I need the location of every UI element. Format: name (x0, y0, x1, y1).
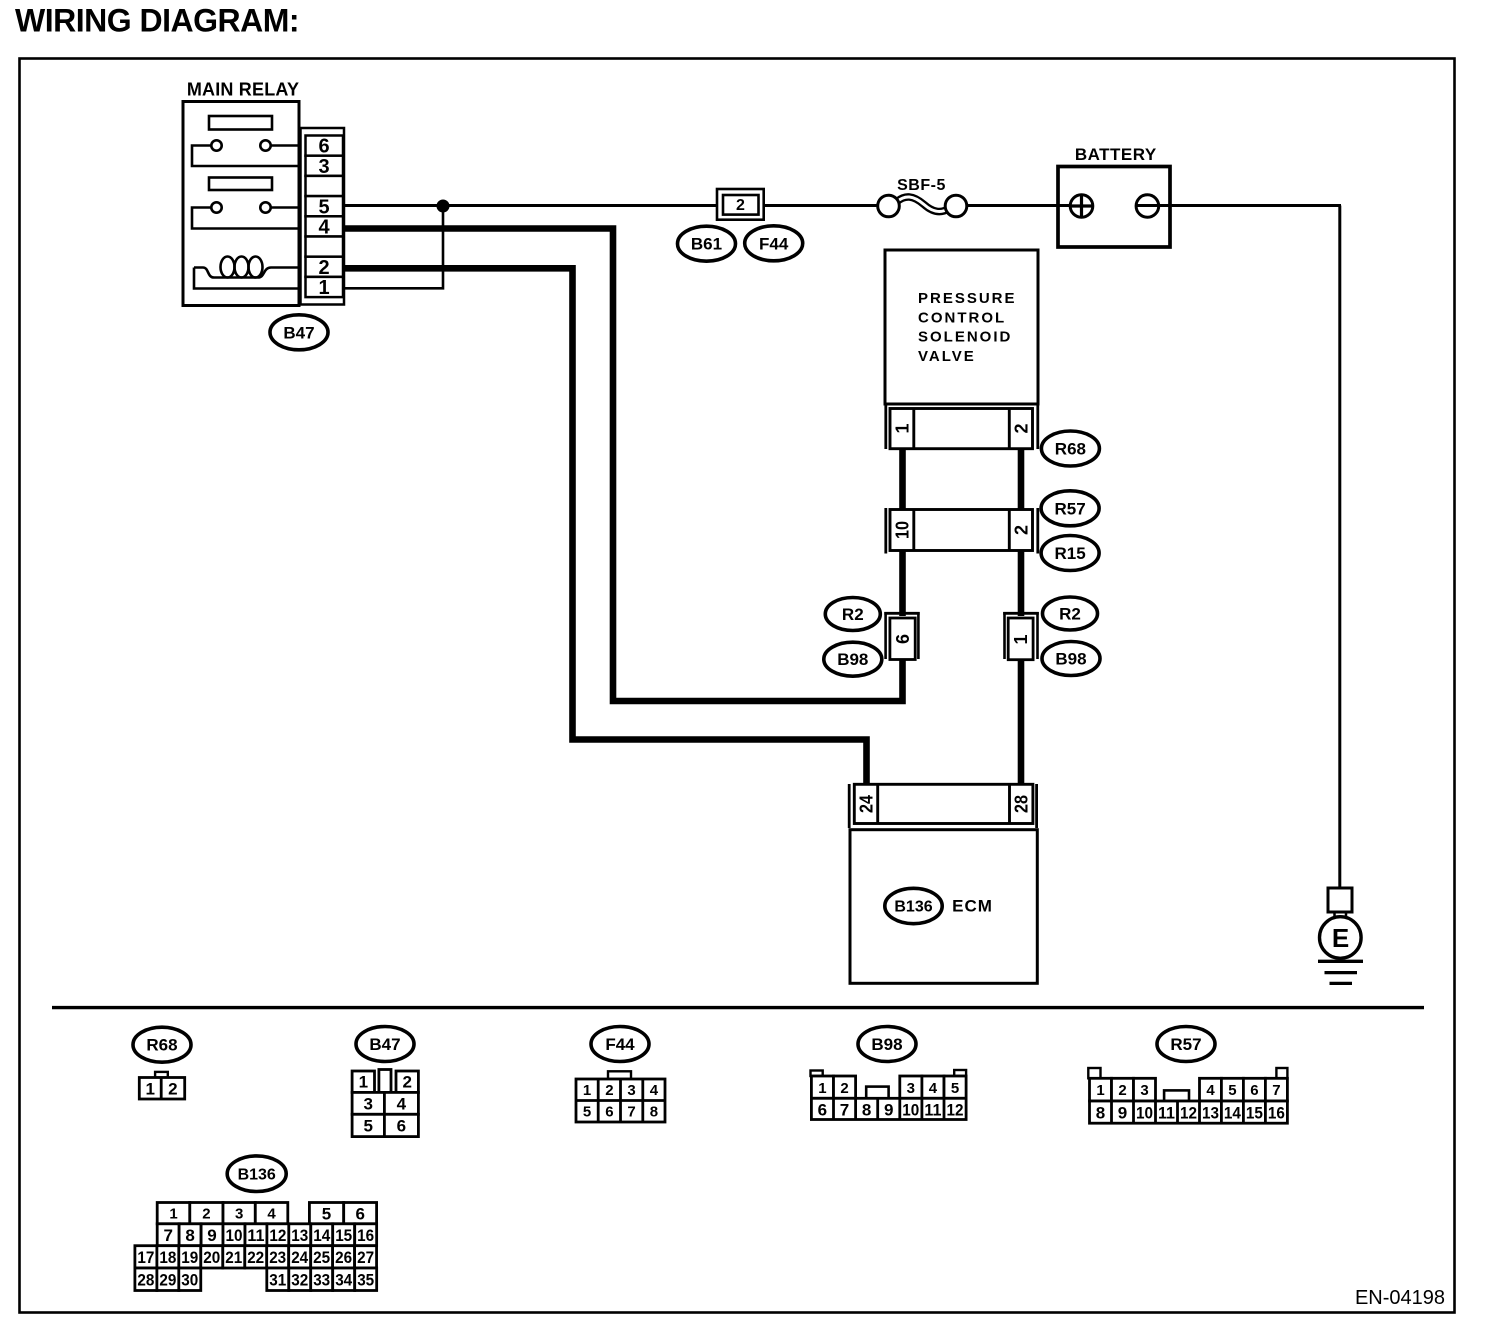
B136 pin 22 cell (245, 1246, 267, 1268)
B136 pin 21 cell (223, 1246, 245, 1268)
svg-text:5: 5 (363, 1117, 372, 1136)
B136 pin 14 cell (311, 1224, 333, 1246)
thick wire R57 conn to R2/B98 conns (899, 549, 906, 616)
svg-text:4: 4 (650, 1082, 659, 1099)
svg-text:2: 2 (1012, 423, 1032, 433)
svg-text:5: 5 (1228, 1082, 1236, 1099)
bottom connector tag F44 (591, 1027, 649, 1062)
svg-text:R68: R68 (1055, 440, 1086, 459)
svg-text:4: 4 (267, 1206, 276, 1223)
svg-text:6: 6 (355, 1204, 364, 1223)
svg-text:VALVE: VALVE (918, 348, 976, 365)
bottom connector tag R68 (133, 1027, 191, 1062)
svg-text:2: 2 (1012, 525, 1032, 535)
svg-text:23: 23 (269, 1248, 286, 1267)
svg-text:26: 26 (335, 1248, 352, 1267)
thick wire conn1 down to ECM pin28 (1018, 657, 1025, 786)
connector tag B98 right (1042, 642, 1100, 676)
connector R68 under valve : side arms (884, 404, 887, 449)
connector tag B136 inside ECM (885, 888, 942, 923)
svg-text:30: 30 (181, 1270, 198, 1289)
bottom connector B98 tabs (811, 1071, 823, 1077)
connector B47 strip outer (301, 128, 345, 305)
connector tag R2 right (1043, 597, 1098, 630)
B136 pin 30 cell (179, 1268, 201, 1291)
svg-text:3: 3 (1140, 1082, 1148, 1099)
svg-text:F44: F44 (605, 1035, 635, 1054)
bottom connector R68 body (139, 1078, 184, 1100)
bottom connector B47 row2 (352, 1092, 418, 1114)
ground bars (1318, 960, 1363, 963)
svg-text:3: 3 (363, 1094, 372, 1113)
svg-text:4: 4 (318, 217, 330, 239)
svg-text:2: 2 (202, 1206, 210, 1223)
svg-text:17: 17 (137, 1248, 154, 1267)
separator line (52, 1006, 1424, 1009)
svg-text:15: 15 (335, 1226, 352, 1245)
junction dot (437, 200, 449, 212)
svg-text:8: 8 (650, 1103, 658, 1120)
svg-text:PRESSURE: PRESSURE (918, 290, 1017, 307)
svg-text:7: 7 (163, 1226, 172, 1245)
svg-text:2: 2 (1118, 1082, 1126, 1099)
B47 strip pin blank cell (306, 237, 344, 257)
svg-text:14: 14 (1224, 1103, 1241, 1122)
bottom connector B98 row1 cells (811, 1076, 833, 1098)
svg-text:R57: R57 (1055, 499, 1086, 518)
B136 pin 26 cell (333, 1246, 355, 1268)
bottom connector tag B47 (356, 1027, 414, 1062)
B136 pin 18 cell (157, 1246, 179, 1268)
pressure control solenoid valve box (885, 250, 1038, 404)
svg-text:16: 16 (1268, 1103, 1285, 1122)
ground wire down right side (1338, 206, 1341, 890)
connector tag R15 (1041, 536, 1099, 571)
connector tag R68 (1041, 431, 1099, 466)
svg-text:11: 11 (924, 1100, 941, 1119)
inline connector box outer (717, 189, 764, 220)
svg-text:B47: B47 (369, 1035, 400, 1054)
svg-text:2: 2 (168, 1080, 177, 1099)
svg-text:20: 20 (203, 1248, 220, 1267)
svg-text:3: 3 (627, 1082, 635, 1099)
bottom connector F44 tab (608, 1071, 631, 1079)
bottom connector R57 handle (1164, 1090, 1189, 1101)
B136 pin 10 cell (223, 1224, 245, 1246)
svg-text:R68: R68 (146, 1036, 177, 1055)
svg-text:1: 1 (583, 1082, 591, 1099)
ground neck (1333, 912, 1336, 918)
svg-text:7: 7 (840, 1100, 849, 1119)
svg-text:SOLENOID: SOLENOID (918, 329, 1012, 346)
svg-text:34: 34 (335, 1270, 352, 1289)
B136 pin 31 cell (267, 1268, 289, 1291)
wire battery to ground drop (1135, 204, 1341, 207)
svg-text:1: 1 (818, 1080, 826, 1097)
svg-text:ECM: ECM (952, 897, 993, 916)
svg-text:7: 7 (627, 1103, 635, 1120)
svg-text:E: E (1332, 923, 1349, 953)
svg-text:R2: R2 (1059, 605, 1081, 624)
B136 pin 29 cell (157, 1268, 179, 1291)
wire fuse to battery (967, 204, 1071, 207)
fuse SBF-5 terminal circles (878, 195, 900, 217)
svg-text:1: 1 (169, 1206, 177, 1223)
connector tag R57 (1041, 491, 1099, 526)
svg-text:27: 27 (357, 1248, 374, 1267)
wire pin1 to junction (344, 206, 443, 288)
svg-text:1: 1 (1011, 634, 1031, 644)
B136 pin 33 cell (311, 1268, 333, 1291)
svg-text:B61: B61 (691, 235, 722, 254)
svg-text:7: 7 (1272, 1082, 1280, 1099)
connector tag F44 (745, 226, 803, 261)
thick wire pin2 to ECM pin24 (344, 268, 867, 786)
connector R57/R15 body (890, 510, 1033, 551)
connector tag B61 (678, 226, 736, 261)
connector tag R2 left (825, 598, 880, 631)
bottom connector R57 row1 cells (1090, 1078, 1112, 1101)
B136 pin 13 cell (289, 1224, 311, 1246)
svg-text:8: 8 (1096, 1103, 1105, 1122)
wire pin5 to battery (power feed) (344, 204, 877, 207)
svg-text:R57: R57 (1170, 1035, 1201, 1054)
bottom connector B136 row1 (157, 1203, 190, 1224)
svg-text:8: 8 (185, 1226, 194, 1245)
svg-text:18: 18 (159, 1248, 176, 1267)
B136 pin 20 cell (201, 1246, 223, 1268)
svg-text:EN-04198: EN-04198 (1355, 1287, 1445, 1309)
svg-text:10: 10 (1136, 1103, 1153, 1122)
ECM box (850, 830, 1037, 984)
B136 pin 28 cell (135, 1268, 157, 1291)
svg-text:33: 33 (313, 1270, 330, 1289)
ECM connector body (854, 784, 1033, 823)
battery positive terminal (1070, 195, 1093, 218)
bottom connector R57 row2 (1090, 1101, 1288, 1123)
main relay contact bar 2 (209, 178, 272, 191)
connector R68 body (890, 409, 1033, 449)
svg-text:3: 3 (318, 156, 329, 178)
bottom connector F44 body (576, 1079, 665, 1122)
inline connector box inner pin 2 (723, 195, 759, 215)
B47 strip pin 1 cell (306, 277, 344, 297)
main relay switch 1 wires (192, 146, 299, 167)
connector pin1 box (1008, 618, 1033, 660)
connector pin6 bracket (884, 612, 919, 615)
svg-text:6: 6 (818, 1100, 827, 1119)
B136 pin 25 cell (311, 1246, 333, 1268)
ground connector square (1328, 888, 1352, 912)
svg-text:12: 12 (947, 1100, 964, 1119)
svg-text:B98: B98 (1055, 650, 1086, 669)
B136 pin 11 cell (245, 1224, 267, 1246)
svg-text:6: 6 (893, 634, 913, 644)
svg-text:B98: B98 (871, 1035, 902, 1054)
B136 pin 24 cell (289, 1246, 311, 1268)
bottom connector tag B98 (858, 1027, 916, 1062)
ground circle E (1320, 917, 1362, 959)
battery negative terminal (1136, 195, 1159, 218)
B136 pin 8 cell (179, 1224, 201, 1246)
connector tag B98 left (824, 642, 882, 676)
svg-text:28: 28 (137, 1270, 154, 1289)
B136 pin 12 cell (267, 1224, 289, 1246)
main relay coil return wire (194, 268, 298, 289)
B136 pin 7 cell (157, 1224, 179, 1246)
svg-text:2: 2 (736, 197, 745, 214)
svg-text:6: 6 (1250, 1082, 1258, 1099)
connector tag B47 (under relay) (270, 315, 328, 350)
bottom connector R68 tab (155, 1072, 168, 1078)
main relay box (183, 102, 299, 306)
main relay coil (194, 268, 298, 278)
svg-text:5: 5 (318, 196, 329, 218)
B47 strip pin 4 cell (306, 216, 344, 236)
svg-text:3: 3 (907, 1080, 915, 1097)
svg-text:10: 10 (893, 521, 913, 539)
svg-text:1: 1 (359, 1073, 368, 1092)
svg-text:12: 12 (1180, 1103, 1197, 1122)
bottom connector B98 row2 (811, 1098, 966, 1119)
B136 pin 16 cell (355, 1224, 377, 1246)
svg-text:24: 24 (856, 795, 876, 813)
svg-text:B98: B98 (837, 650, 868, 669)
svg-text:19: 19 (181, 1248, 198, 1267)
svg-text:3: 3 (235, 1206, 243, 1223)
svg-text:5: 5 (951, 1080, 959, 1097)
thick wire solenoid pin1 down (899, 447, 906, 511)
svg-text:2: 2 (605, 1082, 613, 1099)
svg-text:14: 14 (313, 1226, 330, 1245)
svg-text:12: 12 (269, 1226, 286, 1245)
B47 strip pin 5 cell (306, 196, 344, 216)
B136 pin 23 cell (267, 1246, 289, 1268)
svg-text:6: 6 (397, 1117, 406, 1136)
svg-text:25: 25 (313, 1248, 330, 1267)
ECM connector side arms (848, 784, 851, 828)
svg-text:8: 8 (862, 1100, 871, 1119)
B136 pin 15 cell (333, 1224, 355, 1246)
svg-text:1: 1 (893, 423, 913, 433)
svg-text:SBF-5: SBF-5 (897, 177, 946, 194)
B136 pin 32 cell (289, 1268, 311, 1291)
svg-text:6: 6 (318, 136, 329, 158)
main relay coil loops (221, 257, 235, 278)
svg-text:9: 9 (884, 1100, 893, 1119)
svg-text:4: 4 (929, 1080, 938, 1097)
svg-text:35: 35 (357, 1270, 374, 1289)
svg-text:2: 2 (840, 1080, 848, 1097)
svg-text:9: 9 (207, 1226, 216, 1245)
svg-text:2: 2 (318, 257, 329, 279)
svg-text:4: 4 (1206, 1082, 1215, 1099)
connector R57/R15 : side arms (884, 508, 887, 554)
svg-text:29: 29 (159, 1270, 176, 1289)
bottom connector tag R57 (1157, 1027, 1215, 1062)
bottom connector B98 handle (866, 1087, 888, 1099)
svg-text:4: 4 (397, 1094, 407, 1113)
svg-text:28: 28 (1011, 795, 1031, 813)
svg-text:1: 1 (1096, 1082, 1104, 1099)
svg-text:10: 10 (902, 1100, 919, 1119)
svg-text:WIRING DIAGRAM:: WIRING DIAGRAM: (15, 3, 299, 39)
svg-text:1: 1 (145, 1080, 154, 1099)
svg-text:32: 32 (291, 1270, 308, 1289)
svg-text:2: 2 (402, 1073, 411, 1092)
svg-text:21: 21 (225, 1248, 242, 1267)
connector pin1 bracket (1003, 612, 1039, 615)
svg-text:MAIN RELAY: MAIN RELAY (187, 80, 299, 100)
B136 pin 27 cell (355, 1246, 377, 1268)
svg-text:B136: B136 (894, 899, 932, 916)
svg-text:31: 31 (269, 1270, 286, 1289)
svg-text:13: 13 (291, 1226, 308, 1245)
B47 strip pin 3 cell (306, 156, 344, 176)
fuse SBF-5 wavy link (897, 197, 949, 212)
svg-text:13: 13 (1202, 1103, 1219, 1122)
B47 strip pin 2 cell (306, 257, 344, 277)
battery box (1058, 167, 1170, 248)
svg-text:B47: B47 (283, 323, 314, 342)
svg-text:16: 16 (357, 1226, 374, 1245)
bottom connector B47 row3 (352, 1114, 418, 1136)
main relay contact bar 1 (209, 116, 272, 130)
thick wire solenoid pin2 down (1018, 447, 1025, 511)
svg-text:5: 5 (583, 1103, 591, 1120)
svg-text:9: 9 (1118, 1103, 1127, 1122)
svg-text:CONTROL: CONTROL (918, 309, 1006, 326)
main relay switch 2 contact circles (211, 202, 221, 212)
B136 pin 34 cell (333, 1268, 355, 1291)
svg-text:6: 6 (605, 1103, 613, 1120)
svg-text:11: 11 (247, 1226, 264, 1245)
B47 strip pin 6 cell (306, 136, 344, 156)
B136 pin 35 cell (355, 1268, 377, 1291)
B136 pin 9 cell (201, 1224, 223, 1246)
svg-text:22: 22 (247, 1248, 264, 1267)
svg-text:BATTERY: BATTERY (1075, 145, 1157, 164)
bottom connector tag B136 (227, 1156, 286, 1192)
svg-text:15: 15 (1246, 1103, 1263, 1122)
svg-text:11: 11 (1158, 1103, 1175, 1122)
svg-text:B136: B136 (238, 1166, 276, 1183)
main relay switch 1 contact circles (211, 140, 221, 150)
svg-text:F44: F44 (759, 234, 789, 253)
main relay switch 2 wires (192, 208, 299, 229)
connector pin6 box (890, 618, 915, 660)
thick wire pin4 to solenoid valve chain (344, 229, 903, 702)
B136 pin 19 cell (179, 1246, 201, 1268)
bottom connector B47 row1 (352, 1071, 374, 1092)
svg-text:24: 24 (291, 1248, 308, 1267)
svg-text:R2: R2 (842, 605, 864, 624)
bottom connector R57 tabs (1088, 1068, 1100, 1078)
svg-text:1: 1 (318, 277, 329, 299)
svg-text:R15: R15 (1055, 544, 1086, 563)
svg-text:10: 10 (226, 1226, 243, 1245)
svg-text:5: 5 (322, 1204, 331, 1223)
B47 strip pin blank cell (306, 176, 344, 196)
B136 pin 17 cell (135, 1246, 157, 1268)
